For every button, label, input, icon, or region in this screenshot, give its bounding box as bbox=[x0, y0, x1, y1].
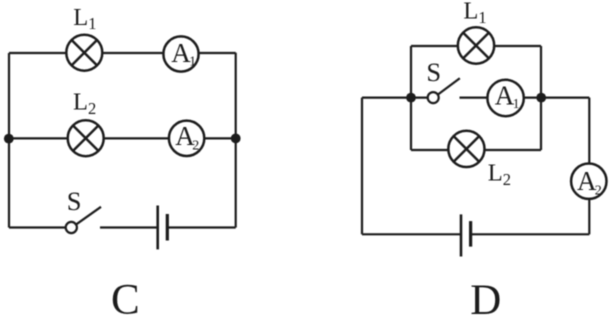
wire: C top branch left segment bbox=[9, 52, 66, 54]
wire: D top branch left segment bbox=[411, 45, 458, 47]
lamp L1 (D) bbox=[458, 27, 494, 63]
ammeter A2 (C) bbox=[169, 121, 204, 156]
wire: C bottom middle segment bbox=[100, 226, 158, 228]
battery (D) bbox=[461, 214, 471, 256]
wire: D bottom branch right segment bbox=[485, 149, 542, 151]
ammeter A1 (D) bbox=[487, 80, 523, 116]
ammeter A1 (C) bbox=[163, 36, 198, 71]
wire: C top branch middle segment bbox=[102, 52, 163, 54]
wire: D middle branch external left bbox=[362, 96, 411, 98]
lamp L1 bbox=[66, 35, 102, 71]
wire: C right vertical bbox=[235, 53, 237, 228]
wire: D bottom branch left segment bbox=[411, 149, 448, 151]
wire: C top branch right segment bbox=[199, 52, 236, 54]
wire: D bottom right segment bbox=[471, 233, 590, 235]
wire: C bottom left segment bbox=[9, 226, 66, 228]
wire: D top branch right segment bbox=[494, 45, 541, 47]
wire: C middle branch right segment bbox=[204, 137, 235, 139]
wire: D bottom left segment bbox=[362, 233, 461, 235]
ammeter A2 (D) bbox=[571, 164, 606, 199]
node: D left junction bbox=[406, 93, 416, 103]
svg-text:S: S bbox=[67, 186, 82, 216]
wire: D inner box right vertical bbox=[540, 46, 542, 150]
switch S (C) bbox=[66, 207, 101, 233]
wire: D middle branch middle segment bbox=[460, 96, 488, 98]
wire: D outer right vertical lower bbox=[588, 199, 590, 234]
svg-text:C: C bbox=[111, 277, 140, 316]
wire: D outer right vertical upper bbox=[588, 98, 590, 164]
node: C left junction bbox=[4, 134, 14, 144]
battery (C) bbox=[158, 206, 168, 250]
switch S (D) bbox=[428, 78, 460, 103]
wire: C middle branch left segment bbox=[9, 137, 67, 139]
node: D right junction bbox=[536, 93, 546, 103]
wire: C bottom right segment bbox=[167, 226, 235, 228]
svg-text:D: D bbox=[470, 277, 501, 316]
node: C right junction bbox=[231, 134, 241, 144]
lamp L2 (D) bbox=[448, 131, 484, 167]
wire: D inner box left vertical bbox=[410, 46, 412, 150]
wire: D middle branch right stub bbox=[524, 96, 541, 98]
wire: C middle branch middle segment bbox=[104, 137, 169, 139]
svg-text:S: S bbox=[426, 57, 441, 87]
wire: C left vertical bbox=[8, 53, 10, 228]
wire: D outer left vertical bbox=[361, 98, 363, 235]
wire: D middle branch external right bbox=[541, 96, 589, 98]
lamp L2 bbox=[68, 120, 104, 156]
wire: D middle branch left stub bbox=[411, 96, 428, 98]
